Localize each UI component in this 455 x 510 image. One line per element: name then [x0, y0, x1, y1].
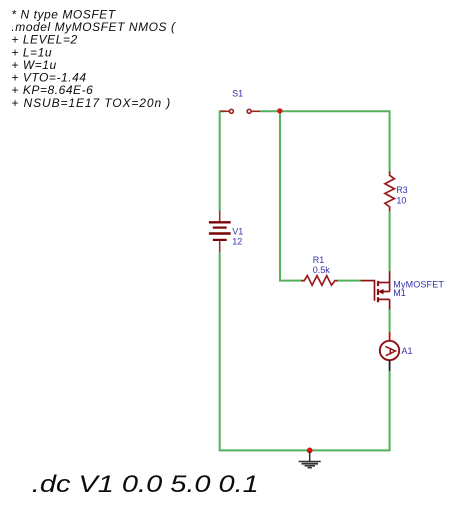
wire: top-left corner and left vertical to battery top	[220, 111, 225, 211]
svg-text:V1: V1	[232, 226, 243, 236]
ground node junction dot	[307, 448, 313, 454]
svg-text:+ NSUB=1E17 TOX=20n ): + NSUB=1E17 TOX=20n )	[11, 96, 171, 110]
wire: middle vertical from junction down and gate run to R1	[280, 111, 301, 280]
resistor R1	[301, 276, 338, 286]
ammeter A1	[380, 341, 399, 360]
junction node at top (drain branch)	[277, 108, 282, 113]
svg-text:10: 10	[396, 196, 406, 206]
resistor R3	[385, 171, 395, 211]
wire: battery bottom, bottom rail, right vertical up to ammeter black lead	[220, 252, 390, 451]
ammeter A1 arrow (rotated A)	[386, 347, 396, 356]
spice model text block	[11, 7, 177, 110]
svg-text:R1: R1	[313, 255, 325, 265]
switch S1	[221, 109, 261, 113]
svg-text:R3: R3	[396, 185, 408, 195]
wire: R1 to MOSFET gate lead	[338, 280, 361, 282]
ammeter A1 top lead	[389, 332, 391, 341]
wire: R3 bottom to MOSFET drain lead	[389, 211, 391, 272]
svg-text:S1: S1	[232, 89, 243, 99]
ground	[299, 452, 321, 468]
wire: MOSFET source to ammeter top lead	[389, 309, 391, 332]
battery V1	[209, 211, 231, 252]
MOSFET M1 body arrow	[378, 289, 384, 294]
MOSFET M1	[361, 271, 390, 309]
wire: switch right terminal to top-right corner down to R3	[260, 111, 390, 171]
svg-text:A1: A1	[402, 346, 413, 356]
svg-text:M1: M1	[393, 288, 406, 298]
svg-text:12: 12	[232, 237, 242, 247]
ammeter A1 bottom lead (black)	[389, 360, 391, 371]
svg-text:.dc V1 0.0 5.0 0.1: .dc V1 0.0 5.0 0.1	[32, 471, 259, 498]
svg-text:0.5k: 0.5k	[313, 265, 331, 275]
